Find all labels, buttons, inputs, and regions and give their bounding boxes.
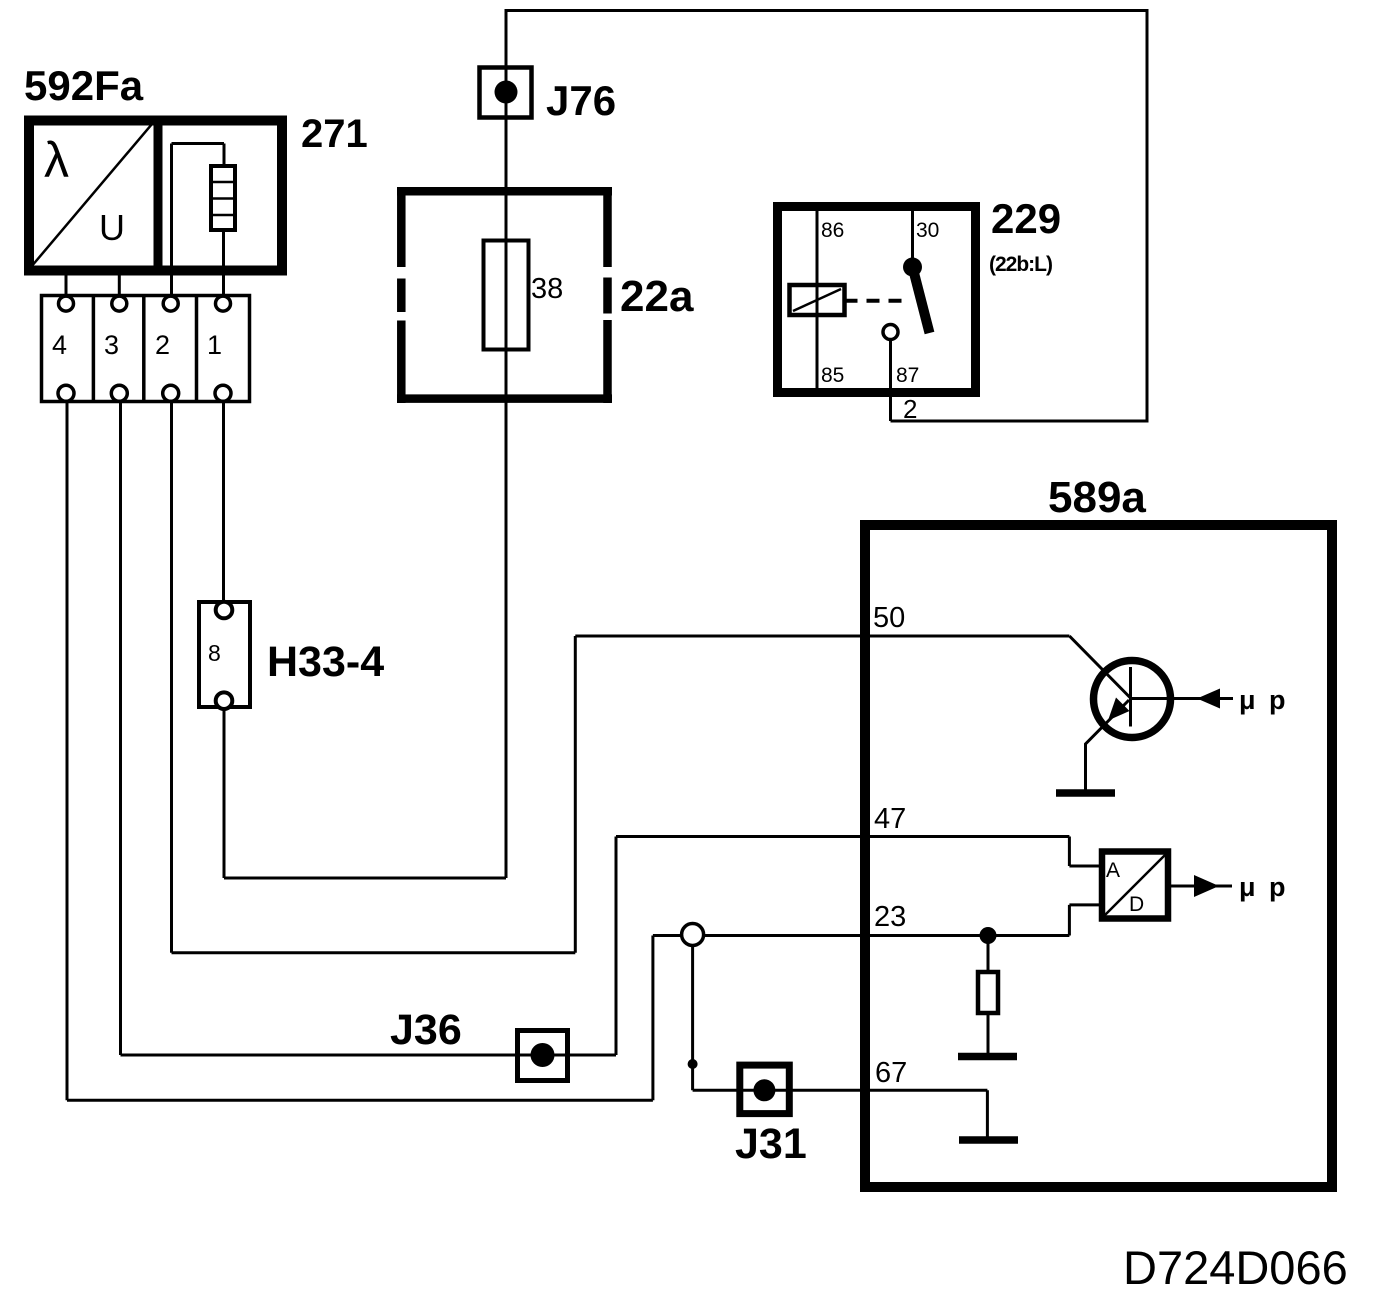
ground under transistor — [1056, 789, 1115, 797]
wire H33-4 top to pin 1 — [222, 231, 225, 605]
relay switch arm — [913, 267, 930, 333]
pin circles top — [59, 296, 231, 311]
svg-text:A: A — [1106, 859, 1120, 882]
svg-text:50: 50 — [873, 602, 905, 634]
arrowhead to transistor — [1197, 689, 1220, 709]
svg-text:J31: J31 — [735, 1120, 807, 1168]
wire relay 87 stub — [889, 392, 892, 421]
connector J76 box — [480, 68, 532, 118]
relay coil feed 86 — [816, 211, 819, 392]
wire junction circle down to J31 to pin 67 — [693, 945, 988, 1137]
svg-text:3: 3 — [104, 330, 119, 360]
relay contact 87 wire — [889, 340, 892, 393]
svg-text:592Fa: 592Fa — [24, 62, 144, 109]
svg-text:271: 271 — [301, 112, 368, 156]
svg-text:μ p: μ p — [1239, 872, 1289, 902]
svg-text:30: 30 — [916, 219, 939, 242]
svg-text:2: 2 — [903, 394, 917, 424]
relay switch pivot — [903, 258, 922, 277]
wire node 50 diagonal to transistor — [1069, 636, 1130, 698]
svg-text:23: 23 — [874, 901, 906, 933]
connector J76 dot — [495, 81, 518, 104]
svg-text:H33-4: H33-4 — [267, 638, 384, 686]
A/D converter box — [1102, 852, 1168, 919]
ECU 589a box — [865, 525, 1332, 1187]
relay dashed actuator line — [845, 299, 911, 303]
svg-text:μ p: μ p — [1239, 685, 1289, 715]
connector J31 dot — [753, 1079, 775, 1101]
wire pin 4 stub — [65, 275, 68, 298]
wire fuse to H33-4 horizontal — [224, 877, 506, 880]
svg-text:8: 8 — [208, 640, 221, 666]
connector J31 box — [740, 1065, 790, 1114]
sensor diagonal — [31, 124, 152, 267]
transistor collector output to microprocessor — [1132, 697, 1233, 700]
fuse holder 22a dashed box — [397, 187, 612, 403]
H33-4 pin circle top — [216, 602, 233, 619]
relay coil — [790, 285, 845, 315]
junction circle (open splice) — [682, 924, 704, 946]
svg-text:(22b:L): (22b:L) — [989, 253, 1052, 276]
svg-text:D: D — [1129, 893, 1144, 916]
wire J76 through fuse 38 vertical — [505, 9, 508, 878]
svg-text:J36: J36 — [390, 1006, 462, 1054]
fuse 38 — [484, 241, 529, 350]
wire H33-4 bottom vertical — [223, 705, 226, 878]
svg-text:86: 86 — [821, 219, 844, 242]
wire pin 3 stub — [118, 275, 121, 298]
transistor base bar — [1129, 667, 1132, 727]
svg-text:D724D066: D724D066 — [1123, 1241, 1348, 1294]
junction dot on wire 23 — [980, 927, 997, 944]
svg-text:589a: 589a — [1048, 473, 1146, 522]
svg-text:229: 229 — [991, 195, 1061, 242]
wire right vertical to relay — [1146, 9, 1149, 421]
pull-down resistor — [978, 972, 998, 1013]
svg-text:λ: λ — [44, 132, 69, 188]
svg-text:1: 1 — [207, 330, 222, 360]
arrowhead from A/D — [1194, 875, 1219, 897]
relay pin 30 feed — [911, 211, 914, 262]
wire pin 4 to junction circle to pin 23 — [67, 399, 1102, 1100]
svg-text:38: 38 — [531, 273, 563, 305]
ground under resistor — [958, 1053, 1017, 1061]
A/D diagonal — [1104, 854, 1166, 916]
wire pin 3 to J36 to pin 47 — [121, 399, 1103, 1055]
ground pin 67 — [959, 1136, 1018, 1144]
junction dot small on J31 branch — [688, 1059, 698, 1069]
svg-text:4: 4 — [52, 330, 67, 360]
connector block 4-pin — [42, 296, 250, 402]
sensor cell divider — [154, 116, 163, 275]
transistor emitter arrow — [1108, 698, 1130, 721]
A/D output to microprocessor — [1168, 885, 1232, 888]
relay 229 box — [778, 207, 976, 393]
wire top feed horizontal — [506, 9, 1147, 12]
svg-text:2: 2 — [155, 330, 170, 360]
pin circles bottom — [58, 385, 231, 401]
connector J36 box — [518, 1031, 568, 1081]
heater connector H33-4 box — [199, 602, 250, 707]
transistor circle — [1094, 661, 1171, 738]
wire pin 2 to node 50 — [172, 399, 1070, 953]
relay contact 87 circle — [883, 325, 898, 340]
svg-text:67: 67 — [875, 1057, 907, 1089]
svg-text:47: 47 — [874, 803, 906, 835]
wire resistor branch — [987, 936, 990, 1054]
connector J36 dot — [531, 1043, 555, 1067]
svg-text:U: U — [99, 207, 125, 248]
transistor emitter line — [1086, 700, 1130, 791]
wire relay pin 2 horizontal — [891, 420, 1149, 423]
svg-text:87: 87 — [896, 364, 919, 387]
heater resistor in 271 cell — [211, 166, 235, 230]
lambda sensor box 592Fa — [29, 121, 282, 271]
H33-4 pin circle bottom — [216, 692, 233, 709]
svg-text:85: 85 — [821, 364, 844, 387]
wire 271 loop — [172, 144, 225, 301]
svg-text:J76: J76 — [546, 77, 616, 124]
svg-text:22a: 22a — [620, 272, 694, 321]
